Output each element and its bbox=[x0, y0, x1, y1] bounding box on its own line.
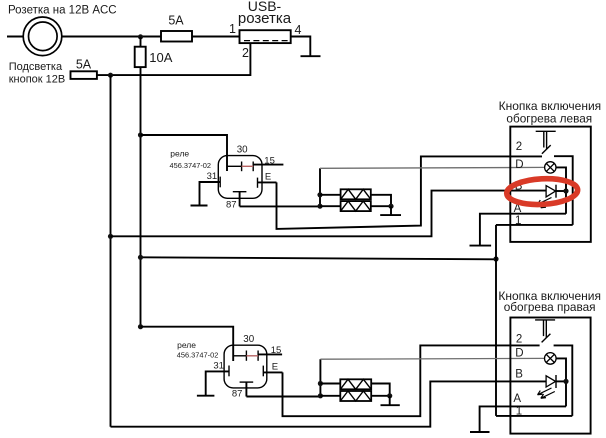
wire (resistor feed vertical) bbox=[319, 359, 321, 396]
ground (relay K1 pin 31) bbox=[191, 205, 208, 207]
node: backlight junction bbox=[108, 73, 113, 78]
relay K1 body bbox=[218, 156, 262, 199]
svg-text:E: E bbox=[265, 171, 271, 182]
svg-text:456.3747-02: 456.3747-02 bbox=[177, 351, 219, 360]
wire (ACC to buttons pin 1) bbox=[141, 257, 497, 259]
svg-text:D: D bbox=[515, 159, 523, 171]
svg-text:Розетка на 12В ACC: Розетка на 12В ACC bbox=[8, 5, 117, 17]
svg-text:A: A bbox=[513, 393, 521, 405]
label: pin 4 bbox=[295, 23, 302, 37]
wire (backlight vertical rail) bbox=[110, 75, 112, 427]
wire bbox=[556, 358, 566, 406]
wire (lamp feed, D net, gray) bbox=[320, 357, 544, 360]
wire (pin 87 to resistors) bbox=[240, 205, 320, 207]
label: pin 31 bbox=[207, 171, 218, 182]
wire (pin E net to button switch) bbox=[277, 156, 543, 229]
label: pin 30 bbox=[243, 334, 254, 345]
svg-text:реле: реле bbox=[170, 149, 189, 159]
node: backlight tap bbox=[108, 234, 113, 239]
svg-text:кнопок 12В: кнопок 12В bbox=[9, 74, 66, 86]
svg-text:30: 30 bbox=[243, 334, 254, 345]
ground (heater R1/R2) bbox=[380, 214, 401, 216]
ground (button SB1 pin A) bbox=[470, 245, 492, 247]
ground (button SB2 pin A) bbox=[470, 431, 490, 433]
svg-text:15: 15 bbox=[264, 156, 275, 167]
label: 10А bbox=[149, 50, 172, 65]
wire (pin 1 row) bbox=[496, 415, 572, 417]
wire (A net to ground) bbox=[480, 214, 566, 246]
button SB2 body bbox=[510, 318, 590, 434]
highlight: red ellipse marker bbox=[506, 177, 578, 206]
relay K1 pin 87 bbox=[233, 192, 247, 207]
svg-text:2: 2 bbox=[516, 141, 522, 153]
label: pin 1 bbox=[229, 22, 236, 36]
label: 5А bbox=[76, 57, 92, 71]
label: реле 456.3747-02 bbox=[170, 149, 212, 170]
svg-text:D: D bbox=[515, 347, 523, 359]
wire bbox=[371, 395, 390, 397]
wire (lamp feed, D net, gray) bbox=[320, 166, 545, 169]
relay K1 contact arm bbox=[227, 162, 253, 172]
node bbox=[318, 381, 323, 386]
label: 5А bbox=[168, 14, 184, 28]
fuse F2 10A bbox=[135, 37, 146, 67]
wire bbox=[389, 396, 391, 405]
ground (USB pin 4) bbox=[301, 55, 321, 57]
switch SB1 actuator bbox=[536, 131, 556, 149]
wire (A net to ground) bbox=[480, 406, 566, 432]
switch SB2 contact bbox=[542, 334, 573, 416]
wire bbox=[390, 206, 392, 215]
socket X1 (12V ACC socket, double circle) bbox=[23, 17, 62, 56]
relay K2 pin 31 bbox=[206, 366, 229, 396]
wire (ACC vertical rail) bbox=[140, 67, 142, 327]
label: USB-розетка bbox=[238, 0, 292, 27]
svg-text:обогрева левая: обогрева левая bbox=[506, 112, 592, 126]
svg-text:30: 30 bbox=[237, 144, 248, 155]
wire bbox=[192, 36, 240, 38]
node bbox=[563, 188, 568, 193]
label: Кнопка включения обогрева правая bbox=[498, 289, 601, 314]
lamp HL1 (indicator, circle with X) bbox=[545, 162, 556, 173]
svg-text:Подсветка: Подсветка bbox=[9, 61, 63, 73]
wire (pin 15 stub) bbox=[253, 164, 283, 166]
wire bbox=[320, 383, 340, 385]
wire bbox=[291, 37, 311, 57]
label: pin 1 bbox=[515, 215, 521, 227]
LED VD2 arrows bbox=[538, 388, 555, 398]
wire bbox=[371, 205, 391, 207]
svg-text:B: B bbox=[515, 368, 523, 380]
wire bbox=[62, 36, 161, 38]
label: pin B bbox=[515, 368, 523, 380]
relay K1 pin 31 bbox=[200, 177, 221, 206]
button SB1 body bbox=[510, 127, 591, 242]
switch SB2 actuator bbox=[535, 320, 555, 338]
relay K2 body bbox=[224, 345, 267, 388]
wire (pin 1 row) bbox=[496, 224, 573, 226]
resistor R1 (heater element) bbox=[341, 189, 371, 199]
svg-text:87: 87 bbox=[232, 389, 243, 400]
label: pin 1 bbox=[516, 406, 522, 418]
wire bbox=[556, 167, 566, 213]
node: junction 12V ACC bbox=[138, 34, 143, 39]
label: pin 2 bbox=[516, 141, 522, 153]
USB socket bbox=[240, 30, 291, 43]
label: pin D bbox=[515, 159, 523, 171]
relay K2 contact (red) bbox=[246, 355, 258, 357]
LED VD1 bbox=[546, 185, 566, 198]
svg-text:5А: 5А bbox=[76, 57, 92, 71]
wire bbox=[371, 195, 391, 206]
fuse F1 5A bbox=[161, 31, 192, 42]
node bbox=[388, 204, 393, 209]
svg-text:реле: реле bbox=[177, 340, 196, 350]
LED VD1 arrows bbox=[538, 198, 555, 208]
svg-text:4: 4 bbox=[295, 23, 302, 37]
svg-text:2: 2 bbox=[516, 333, 522, 345]
svg-text:1: 1 bbox=[229, 22, 236, 36]
lamp HL2 (indicator, circle with X) bbox=[545, 353, 557, 365]
label: pin 15 bbox=[264, 156, 275, 167]
svg-text:456.3747-02: 456.3747-02 bbox=[170, 161, 212, 170]
wire (backlight to button B) bbox=[111, 191, 547, 237]
label: pin 31 bbox=[213, 360, 224, 371]
label: реле 456.3747-02 bbox=[177, 340, 219, 360]
label: pin 87 bbox=[232, 389, 243, 400]
resistor R2 (heater element) bbox=[341, 201, 371, 211]
wire (resistor feed vertical) bbox=[319, 168, 321, 206]
node: relay2 supply corner bbox=[138, 324, 143, 329]
wire bbox=[320, 194, 341, 196]
resistor R4 (heater element) bbox=[340, 391, 371, 401]
svg-text:розетка: розетка bbox=[238, 10, 292, 27]
label: pin 2 bbox=[516, 333, 522, 345]
label: pin A bbox=[514, 203, 522, 215]
svg-text:15: 15 bbox=[271, 345, 282, 356]
fuse F3 5A bbox=[71, 71, 97, 79]
LED VD2 bbox=[546, 375, 566, 388]
node bbox=[387, 393, 392, 398]
wire (USB pin 2 to backlight rail) bbox=[97, 43, 251, 75]
svg-text:31: 31 bbox=[207, 171, 218, 182]
wire (pin E net to button switch) bbox=[283, 345, 540, 416]
switch SB1 contact bbox=[542, 145, 573, 225]
label: Розетка на 12В ACC bbox=[8, 5, 117, 17]
relay K1 pin E bbox=[258, 178, 277, 188]
wire (pin 87 to resistors) bbox=[246, 396, 320, 398]
label: pin 30 bbox=[237, 144, 248, 155]
wire (backlight to button B) bbox=[111, 381, 547, 426]
label: pin 15 bbox=[271, 345, 282, 356]
ground (relay K2 pin 31) bbox=[197, 395, 215, 397]
svg-text:2: 2 bbox=[242, 46, 249, 60]
node bbox=[138, 255, 143, 260]
label: Кнопка включения обогрева левая bbox=[499, 99, 602, 126]
wire (pin 15 stub) bbox=[258, 353, 282, 355]
label: pin 87 bbox=[226, 199, 237, 210]
label: pin E bbox=[265, 171, 271, 182]
node bbox=[317, 204, 322, 209]
relay K2 pin E bbox=[263, 366, 282, 377]
label: pin E bbox=[272, 361, 278, 372]
wire bbox=[320, 395, 340, 397]
svg-text:E: E bbox=[272, 361, 278, 372]
wire bbox=[320, 205, 341, 207]
svg-text:87: 87 bbox=[226, 199, 237, 210]
wire bbox=[371, 384, 390, 396]
svg-text:обогрева правая: обогрева правая bbox=[504, 300, 596, 314]
relay K2 contact arm bbox=[233, 351, 258, 361]
node bbox=[317, 192, 322, 197]
wire bbox=[7, 36, 23, 38]
label: pin D bbox=[515, 347, 523, 359]
wire (to relay2 pin 30) bbox=[141, 327, 234, 361]
ground (heater R3/R4) bbox=[381, 404, 400, 406]
node bbox=[493, 256, 498, 261]
wire (to relay1 pin 30) bbox=[141, 135, 228, 171]
svg-text:10А: 10А bbox=[149, 50, 172, 65]
node bbox=[318, 393, 323, 398]
relay K1 contact (red) bbox=[242, 165, 254, 167]
wire (pin1 vertical rail) bbox=[495, 225, 497, 416]
resistor R3 (heater element) bbox=[340, 379, 371, 389]
label: Подсветка кнопок 12В bbox=[9, 61, 66, 86]
svg-text:31: 31 bbox=[213, 360, 224, 371]
relay K2 pin 87 bbox=[240, 382, 254, 396]
label: pin A bbox=[513, 393, 521, 405]
label: pin 2 bbox=[242, 46, 249, 60]
svg-text:5А: 5А bbox=[168, 14, 184, 28]
node: relay1 supply tap bbox=[138, 132, 143, 137]
node bbox=[563, 379, 568, 384]
label: pin B bbox=[515, 180, 523, 192]
